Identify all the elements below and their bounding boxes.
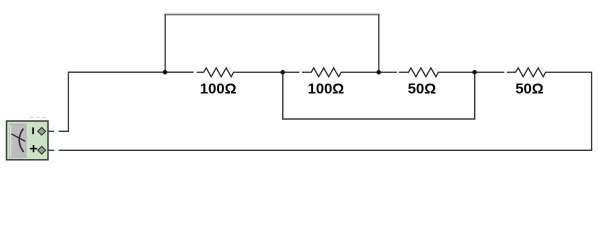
voltmeter XMM body — [7, 121, 49, 160]
node D junction dot — [472, 70, 477, 75]
wire: top branch right vertical — [378, 14, 380, 72]
wire: stub from meter minus pin — [46, 130, 55, 132]
resistor R1 100ohm — [197, 68, 300, 77]
voltmeter needle — [11, 134, 25, 142]
voltmeter dial panel — [10, 124, 26, 157]
wire: right riser and bottom return wire to meter plus terminal — [59, 72, 592, 151]
wire: stub from meter plus pin — [46, 149, 55, 151]
wire: top branch left vertical — [164, 14, 166, 72]
minus pin diamond — [38, 128, 46, 136]
resistor R3 50ohm — [399, 68, 505, 77]
wire: main horizontal segment from left riser to resistor R1 — [68, 71, 193, 73]
resistor R2 100ohm — [302, 68, 397, 77]
faint dashed label placeholder above meter — [30, 116, 48, 118]
svg-text:50Ω: 50Ω — [408, 82, 436, 98]
plus pin diamond — [38, 146, 46, 154]
minus terminal mark (rotated) — [32, 127, 34, 134]
resistor R4 50ohm — [507, 68, 592, 77]
voltmeter dial arc — [19, 129, 23, 152]
wire: bottom parallel branch (node B down, across, up to node D) — [283, 72, 475, 119]
node A junction dot — [163, 70, 168, 75]
plus terminal mark — [30, 145, 37, 152]
svg-text:50Ω: 50Ω — [515, 82, 543, 98]
wire: left riser from main wire down to meter minus terminal — [59, 72, 69, 132]
node B junction dot — [280, 70, 285, 75]
svg-text:100Ω: 100Ω — [308, 82, 345, 98]
voltmeter dial panel highlight — [10, 125, 12, 157]
wire: top parallel branch horizontal — [165, 14, 380, 16]
svg-text:100Ω: 100Ω — [200, 82, 237, 98]
node C junction dot — [376, 70, 381, 75]
